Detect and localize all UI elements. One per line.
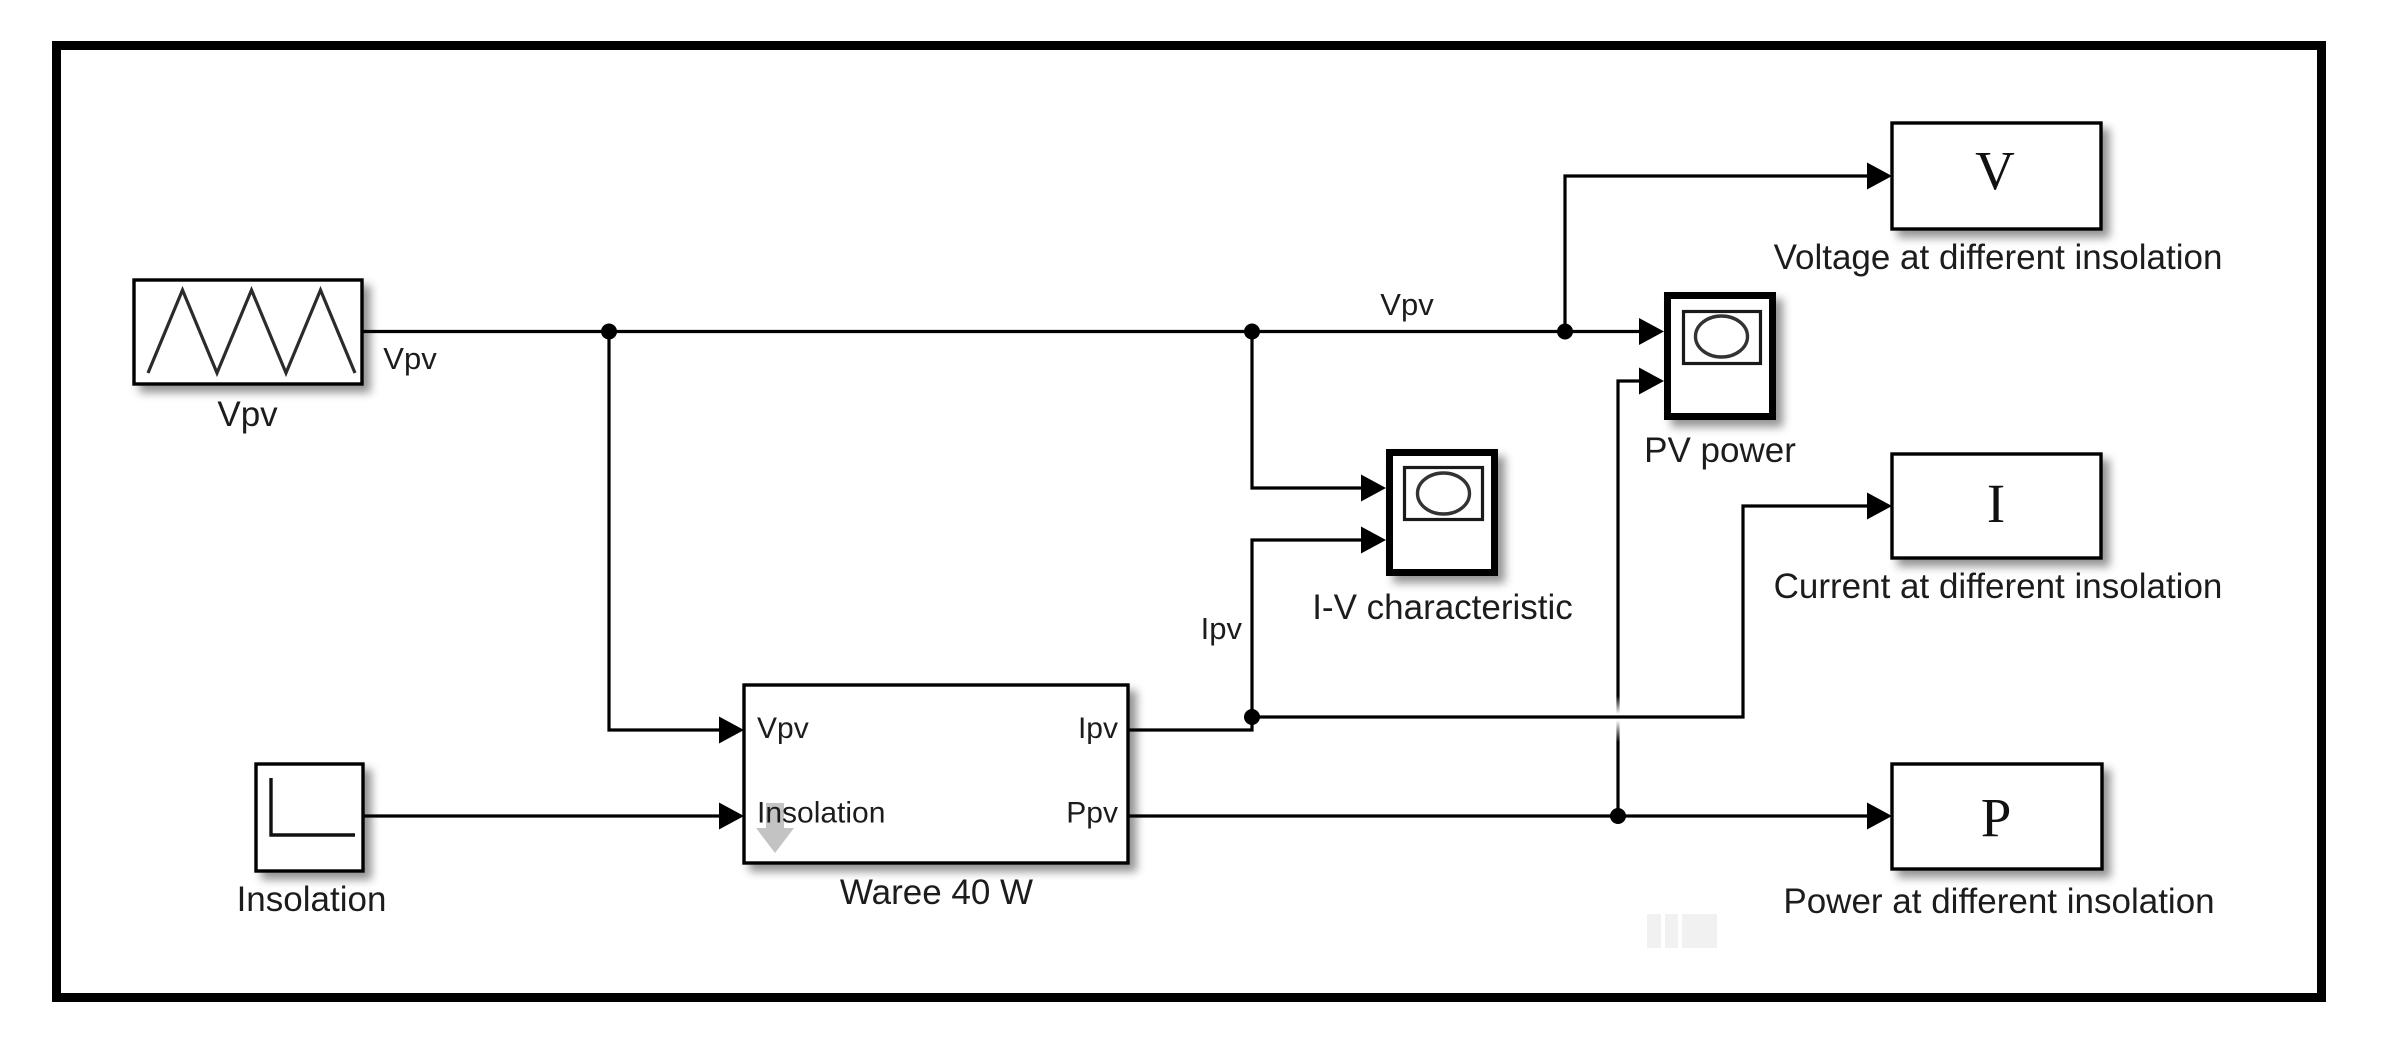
svg-text:Vpv: Vpv <box>1380 287 1434 322</box>
svg-text:Waree 40 W: Waree 40 W <box>840 873 1033 912</box>
block: V display <box>1892 123 2101 229</box>
wire: Ppv branch up to PV power input 2 (with crossing fade at y=717) <box>0 0 1 1</box>
svg-text:Ppv: Ppv <box>1066 797 1118 830</box>
junction dot on Ipv riser at I-display branch <box>1244 709 1260 725</box>
svg-text:P: P <box>1981 787 2012 848</box>
gray annotation arrow under Insolation port <box>756 803 794 853</box>
svg-text:I: I <box>1987 473 2005 534</box>
svg-text:Power at different insolation: Power at different insolation <box>1783 882 2214 921</box>
wire: branch down to Waree Vpv input <box>609 332 722 731</box>
junction dot on Vpv wire at V-display branch <box>1557 324 1573 340</box>
wire: branch up to V display <box>1565 176 1871 332</box>
block: Waree 40 W PV module <box>744 685 1128 863</box>
block: Vpv triangle-wave source <box>134 280 362 384</box>
svg-text:Vpv: Vpv <box>217 395 278 434</box>
arrowhead into Waree Vpv <box>719 717 744 744</box>
svg-text:Voltage at different insolatio: Voltage at different insolation <box>1774 238 2223 277</box>
block: P display <box>1892 764 2102 869</box>
wire: Vpv main horizontal <box>362 330 1643 333</box>
svg-text:PV power: PV power <box>1644 431 1796 470</box>
svg-text:V: V <box>1975 140 2015 201</box>
wire: Insolation source to Waree <box>363 814 722 817</box>
junction dot on Vpv wire at Waree branch <box>601 324 617 340</box>
svg-text:Ipv: Ipv <box>1078 712 1118 745</box>
block: I-V characteristic scope <box>1390 453 1495 573</box>
svg-text:Current at different insolatio: Current at different insolation <box>1774 567 2223 606</box>
arrowhead into I-V scope input 2 <box>1361 527 1386 554</box>
wire: Ipv output to I-V scope input 2 <box>1128 540 1365 730</box>
arrowhead into PV power input 1 <box>1639 318 1664 345</box>
block: I display <box>1892 454 2101 558</box>
watermark blocks <box>1647 914 1717 948</box>
arrowhead into P display <box>1867 803 1892 830</box>
wire: Ppv output to P display <box>1128 814 1871 817</box>
svg-text:Insolation: Insolation <box>757 797 885 830</box>
arrowhead into I-V scope input 1 <box>1361 475 1386 502</box>
wire: Ipv branch to I display <box>1252 506 1871 717</box>
wire: branch down to I-V scope input 1 <box>1252 332 1365 489</box>
junction dot on Ppv wire at PV-power branch <box>1610 808 1626 824</box>
svg-text:Insolation: Insolation <box>237 880 387 919</box>
svg-text:I-V characteristic: I-V characteristic <box>1312 588 1573 627</box>
block: PV power scope <box>1668 296 1773 417</box>
block: Insolation step source <box>256 764 363 871</box>
svg-text:Vpv: Vpv <box>383 341 437 376</box>
svg-text:Ipv: Ipv <box>1201 611 1243 646</box>
arrowhead into I display <box>1867 493 1892 520</box>
junction dot on Vpv wire at I-V branch <box>1244 324 1260 340</box>
arrowhead into PV power input 2 <box>1639 368 1664 395</box>
arrowhead into V display <box>1867 163 1892 190</box>
arrowhead into Waree Insolation <box>719 803 744 830</box>
svg-text:Vpv: Vpv <box>757 712 809 745</box>
